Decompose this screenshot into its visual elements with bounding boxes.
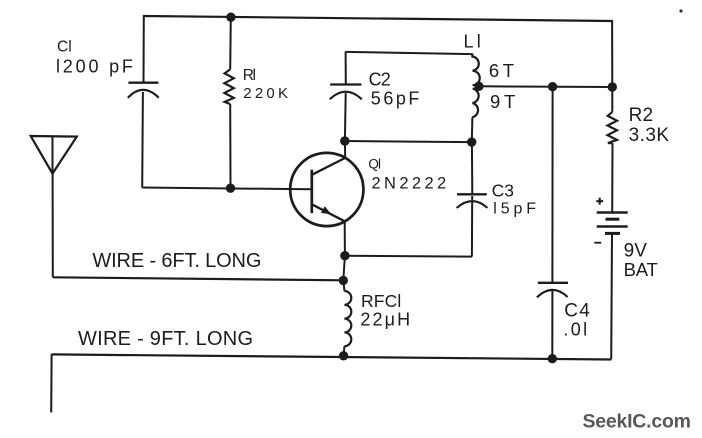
svg-text:C2: C2: [369, 70, 391, 90]
svg-text:6T: 6T: [489, 60, 518, 81]
svg-text:Ql: Ql: [368, 157, 381, 172]
svg-text:RFCl: RFCl: [361, 291, 401, 311]
svg-text:2N2222: 2N2222: [372, 175, 450, 193]
svg-text:WIRE - 9FT. LONG: WIRE - 9FT. LONG: [78, 328, 253, 350]
svg-text:C3: C3: [492, 181, 514, 201]
svg-text:SeekIC.com: SeekIC.com: [583, 410, 691, 432]
svg-text:22μH: 22μH: [360, 309, 412, 329]
svg-text:BAT: BAT: [624, 259, 658, 280]
svg-text:Cl: Cl: [57, 39, 72, 56]
svg-text:l5pF: l5pF: [493, 201, 540, 218]
svg-text:Ll: Ll: [464, 32, 484, 52]
svg-text:56pF: 56pF: [371, 89, 422, 109]
svg-text:WIRE - 6FT. LONG: WIRE - 6FT. LONG: [92, 250, 261, 272]
svg-text:Rl: Rl: [243, 67, 256, 84]
svg-text:C4: C4: [564, 301, 591, 322]
svg-text:l200 pF: l200 pF: [56, 57, 136, 77]
svg-text:220K: 220K: [243, 85, 291, 102]
svg-text:R2: R2: [629, 105, 654, 126]
svg-text:9T: 9T: [490, 91, 519, 112]
svg-text:.0l: .0l: [563, 320, 589, 340]
svg-text:3.3K: 3.3K: [629, 125, 670, 146]
